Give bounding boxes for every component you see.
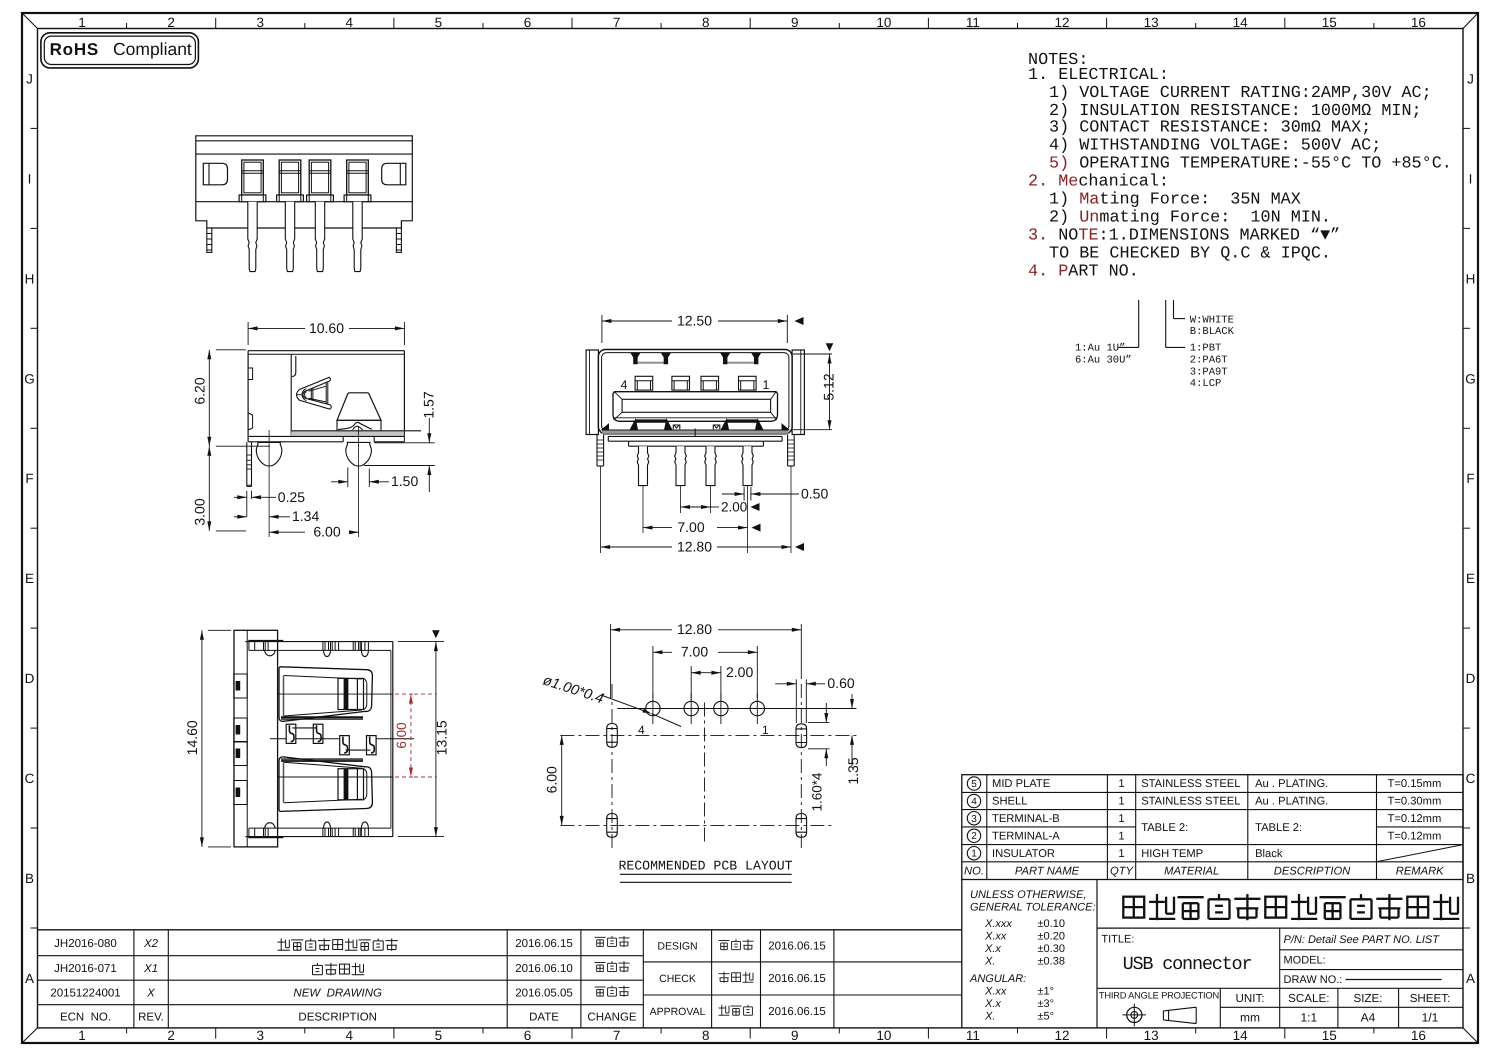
side view peg right <box>346 442 372 466</box>
bottom view top spring bottom bar <box>281 716 363 718</box>
side view top hook <box>292 356 296 377</box>
svg-text:5) OPERATING TEMPERATURE:-55°C: 5) OPERATING TEMPERATURE:-55°C TO +85°C. <box>1049 155 1452 174</box>
svg-text:4:LCP: 4:LCP <box>1190 378 1222 390</box>
svg-text:10: 10 <box>876 1028 891 1043</box>
svg-text:JH2016-071: JH2016-071 <box>54 963 117 975</box>
svg-text:13: 13 <box>1144 1028 1159 1043</box>
RoHS badge outer box <box>41 33 199 68</box>
svg-text:ECN NO.: ECN NO. <box>60 1011 111 1023</box>
front view dim 0.50 <box>743 487 745 501</box>
svg-text:1. ELECTRICAL:: 1. ELECTRICAL: <box>1028 66 1169 85</box>
svg-text:A4: A4 <box>1361 1011 1376 1025</box>
side view dim 1.34 <box>234 516 247 518</box>
svg-text:15: 15 <box>1322 15 1337 30</box>
revision table grid <box>37 929 962 931</box>
svg-text:5: 5 <box>435 15 443 30</box>
front view dim 12.80 <box>601 546 672 548</box>
svg-text:15: 15 <box>1322 1028 1337 1043</box>
svg-text:2016.06.10: 2016.06.10 <box>515 963 573 975</box>
svg-text:6: 6 <box>524 1028 532 1043</box>
svg-text:16: 16 <box>1411 1028 1426 1043</box>
svg-text:SHEET:: SHEET: <box>1410 992 1451 1005</box>
svg-text:B:BLACK: B:BLACK <box>1190 326 1235 338</box>
front view pin centerlines <box>642 486 644 533</box>
approval block grid <box>643 961 962 963</box>
svg-text:USB connector: USB connector <box>1123 954 1252 975</box>
svg-text:±0.10: ±0.10 <box>1038 918 1065 930</box>
side view dim 1.57 <box>374 442 435 444</box>
svg-text:A: A <box>1466 971 1475 986</box>
front view top latch B <box>723 362 758 364</box>
svg-text:6:Au 30U”: 6:Au 30U” <box>1075 355 1132 367</box>
svg-text:7: 7 <box>613 15 621 30</box>
svg-text:INSULATOR: INSULATOR <box>992 848 1055 860</box>
svg-text:1) Mating Force: 35N MAX: 1) Mating Force: 35N MAX <box>1049 191 1301 210</box>
svg-text:±0.20: ±0.20 <box>1038 930 1065 942</box>
svg-text:13: 13 <box>1144 15 1159 30</box>
front view tongue <box>613 392 778 422</box>
svg-text:12.80: 12.80 <box>677 621 712 637</box>
svg-text:7.00: 7.00 <box>677 519 704 535</box>
terminal box <box>347 160 369 195</box>
svg-text:TERMINAL-A: TERMINAL-A <box>992 831 1060 843</box>
svg-text:Compliant: Compliant <box>113 39 192 59</box>
svg-text:JH2016-080: JH2016-080 <box>54 938 117 950</box>
svg-text:1.35: 1.35 <box>845 757 861 784</box>
svg-text:HIGH TEMP: HIGH TEMP <box>1141 848 1203 860</box>
bottom view dim 13.15 <box>398 641 444 643</box>
rear view left hole <box>203 163 227 185</box>
svg-text:0.60: 0.60 <box>827 675 854 691</box>
svg-text:11: 11 <box>966 1028 980 1043</box>
company name chinese <box>1123 897 1144 918</box>
projection cone symbol <box>1163 1007 1196 1023</box>
bottom view dim 6.00 red <box>395 693 413 695</box>
svg-text:2016.06.15: 2016.06.15 <box>515 938 573 950</box>
svg-text:1: 1 <box>78 1028 86 1043</box>
svg-text:14: 14 <box>1233 1028 1249 1043</box>
svg-text:±1°: ±1° <box>1038 986 1055 998</box>
svg-text:E: E <box>25 571 34 586</box>
svg-text:A: A <box>25 971 34 986</box>
pcb dim 1.35 <box>764 708 857 710</box>
svg-text:J: J <box>26 72 33 87</box>
svg-text:3:PA9T: 3:PA9T <box>1190 367 1228 379</box>
svg-text:4: 4 <box>638 723 645 737</box>
svg-text:1) VOLTAGE CURRENT RATING:2AMP: 1) VOLTAGE CURRENT RATING:2AMP,30V AC; <box>1049 84 1432 103</box>
side view latch wave <box>338 422 372 429</box>
svg-text:1.50: 1.50 <box>391 473 418 489</box>
BOM table grid <box>962 775 1463 880</box>
side view dim 3.00 <box>208 446 210 531</box>
side view left edge notches <box>248 368 253 380</box>
svg-text:SIZE:: SIZE: <box>1354 992 1383 1005</box>
svg-text:NO.: NO. <box>964 865 984 877</box>
svg-text:I: I <box>1469 171 1473 186</box>
svg-text:7: 7 <box>613 1028 621 1043</box>
svg-text:12: 12 <box>1054 1028 1069 1043</box>
svg-text:2. Mechanical:: 2. Mechanical: <box>1028 173 1169 192</box>
svg-text:1.34: 1.34 <box>292 508 319 524</box>
svg-text:3: 3 <box>971 814 977 825</box>
side view dim 0.25 <box>246 491 248 517</box>
svg-text:20151224001: 20151224001 <box>50 988 120 1000</box>
pcb dim 6.00 left <box>561 735 563 825</box>
svg-text:I: I <box>28 171 32 186</box>
side view dim 10.60 <box>247 322 249 345</box>
front view shell inner <box>602 353 789 431</box>
terminal pin <box>353 202 362 272</box>
svg-text:1: 1 <box>1118 848 1124 860</box>
svg-text:2016.06.15: 2016.06.15 <box>768 1006 826 1018</box>
svg-text:2.00: 2.00 <box>726 664 753 680</box>
side view latch trapezoid <box>337 393 381 421</box>
svg-text:APPROVAL: APPROVAL <box>650 1006 706 1018</box>
svg-text:2: 2 <box>971 831 977 842</box>
svg-text:STAINLESS STEEL: STAINLESS STEEL <box>1141 796 1240 808</box>
svg-text:H: H <box>1466 271 1476 286</box>
svg-text:1: 1 <box>1118 778 1124 790</box>
side view peg left <box>256 442 282 466</box>
svg-text:Au . PLATING.: Au . PLATING. <box>1255 778 1328 790</box>
svg-text:2) Unmating Force: 10N MIN.: 2) Unmating Force: 10N MIN. <box>1049 209 1331 228</box>
svg-text:mm: mm <box>1240 1011 1260 1025</box>
bottom view bottom spring crimp <box>338 769 364 800</box>
svg-text:5: 5 <box>971 779 977 790</box>
bottom view dim 14.60 <box>208 629 231 631</box>
svg-text:2016.05.05: 2016.05.05 <box>515 988 573 1000</box>
front view shell outer <box>598 350 792 434</box>
svg-text:4: 4 <box>621 378 628 392</box>
front view left flange <box>586 350 598 435</box>
svg-text:X1: X1 <box>143 963 158 975</box>
pcb slots <box>607 729 618 743</box>
svg-text:DESIGN: DESIGN <box>657 941 697 953</box>
svg-text:Au . PLATING.: Au . PLATING. <box>1255 796 1328 808</box>
svg-text:X: X <box>146 988 156 1000</box>
svg-text:1: 1 <box>1118 813 1124 825</box>
svg-text:3: 3 <box>256 1028 264 1043</box>
front view dim 12.50 <box>601 315 603 343</box>
svg-text:ANGULAR:: ANGULAR: <box>969 973 1026 985</box>
svg-text:3: 3 <box>256 15 264 30</box>
svg-text:6.00: 6.00 <box>313 524 340 540</box>
terminal flange <box>277 195 304 202</box>
svg-text:D: D <box>25 671 35 686</box>
bottom view contact clips <box>286 724 296 743</box>
front view pins <box>637 446 649 485</box>
svg-text:E: E <box>1466 571 1475 586</box>
bottom view left block <box>234 630 278 847</box>
side view dim 6.00 <box>269 531 305 533</box>
svg-text:T=0.12mm: T=0.12mm <box>1388 831 1442 843</box>
bottom view bottom spring <box>279 757 372 812</box>
svg-text:0.50: 0.50 <box>801 485 828 501</box>
svg-text:G: G <box>24 371 35 386</box>
side view dim 1.50 <box>347 467 349 487</box>
svg-text:14: 14 <box>1233 15 1249 30</box>
svg-text:TERMINAL-B: TERMINAL-B <box>992 813 1060 825</box>
svg-text:6: 6 <box>524 15 532 30</box>
svg-text:2016.06.15: 2016.06.15 <box>768 941 826 953</box>
svg-text:MID PLATE: MID PLATE <box>992 778 1050 790</box>
svg-text:THIRD ANGLE PROJECTION: THIRD ANGLE PROJECTION <box>1099 990 1219 1000</box>
rear view right hole <box>382 163 406 185</box>
svg-text:1.57: 1.57 <box>421 391 437 418</box>
svg-text:14.60: 14.60 <box>184 720 200 755</box>
svg-text:D: D <box>1466 671 1476 686</box>
bottom view left block slots <box>234 674 247 698</box>
svg-text:B: B <box>1466 871 1475 886</box>
pcb dim 0.60 <box>795 679 797 723</box>
svg-text:4. PART NO.: 4. PART NO. <box>1028 263 1139 282</box>
front view bottom latch A <box>636 419 667 421</box>
svg-text:RECOMMENDED PCB LAYOUT: RECOMMENDED PCB LAYOUT <box>618 859 792 874</box>
svg-text:X.xx: X.xx <box>984 986 1007 998</box>
svg-text:1:1: 1:1 <box>1300 1011 1317 1025</box>
svg-text:1/1: 1/1 <box>1422 1011 1439 1025</box>
svg-text:3.00: 3.00 <box>192 498 208 525</box>
svg-text:TABLE 2:: TABLE 2: <box>1141 822 1188 834</box>
BOM remark diagonal <box>1377 845 1464 862</box>
svg-text:MATERIAL: MATERIAL <box>1164 865 1219 877</box>
svg-text:3. NOTE:1.DIMENSIONS MARKED “▼: 3. NOTE:1.DIMENSIONS MARKED “▼” <box>1028 227 1340 246</box>
svg-text:X.x: X.x <box>984 998 1001 1010</box>
svg-text:11: 11 <box>966 15 980 30</box>
svg-text:±0.38: ±0.38 <box>1038 955 1065 967</box>
title block grid <box>961 880 963 1028</box>
BOM circled item numbers <box>967 777 980 790</box>
side view wire clip spring <box>297 377 332 409</box>
svg-text:6.20: 6.20 <box>192 377 208 404</box>
terminal box <box>242 160 264 195</box>
svg-text:TO BE CHECKED BY Q.C & IPQC.: TO BE CHECKED BY Q.C & IPQC. <box>1049 245 1331 264</box>
svg-text:QTY: QTY <box>1110 865 1135 877</box>
part number tree lines <box>1118 346 1139 348</box>
svg-text:UNLESS OTHERWISE,: UNLESS OTHERWISE, <box>970 889 1087 901</box>
terminal box <box>279 160 301 195</box>
svg-text:3) CONTACT RESISTANCE: 30mΩ MA: 3) CONTACT RESISTANCE: 30mΩ MAX; <box>1049 119 1371 138</box>
svg-text:REV.: REV. <box>138 1011 164 1023</box>
pcb construction lines <box>560 734 856 736</box>
svg-text:P/N: Detail See PART NO. LIST: P/N: Detail See PART NO. LIST <box>1284 934 1441 946</box>
front view dim 5.12 <box>793 353 832 355</box>
svg-text:GENERAL TOLERANCE:: GENERAL TOLERANCE: <box>970 902 1096 914</box>
svg-text:7.00: 7.00 <box>681 644 708 660</box>
svg-text:±3°: ±3° <box>1038 998 1055 1010</box>
svg-text:X.xx: X.xx <box>984 930 1007 942</box>
side view peg centerlines <box>268 430 270 537</box>
pcb dim 1.60x4 <box>808 722 830 724</box>
pcb dim 7.00 <box>652 646 654 698</box>
bottom view inner horizontal lines <box>278 693 393 695</box>
svg-text:W:WHITE: W:WHITE <box>1190 315 1234 327</box>
rear view top band lines <box>196 140 412 142</box>
svg-text:SCALE:: SCALE: <box>1288 992 1329 1005</box>
svg-text:±5°: ±5° <box>1038 1011 1055 1023</box>
front view insulator steps <box>608 435 782 437</box>
bottom view top shell band <box>245 641 392 643</box>
front view contact boxes <box>635 376 653 390</box>
svg-text:2016.06.15: 2016.06.15 <box>768 973 826 985</box>
svg-text:J: J <box>1467 72 1474 87</box>
RoHS badge inner box <box>44 36 195 64</box>
svg-text:TABLE 2:: TABLE 2: <box>1255 822 1302 834</box>
svg-text:12: 12 <box>1054 15 1069 30</box>
pcb dim 2.00 <box>690 666 692 700</box>
corner diagonals <box>22 13 38 29</box>
bottom view bottom shell band <box>245 836 392 838</box>
terminal flange <box>239 195 266 202</box>
svg-text:MODEL:: MODEL: <box>1284 955 1326 967</box>
svg-text:6.00: 6.00 <box>544 766 560 793</box>
front view dim 2.00 <box>681 506 711 508</box>
terminal pin <box>285 202 294 272</box>
bottom view bottom spring top bar <box>281 760 363 762</box>
svg-text:X.x: X.x <box>984 943 1001 955</box>
svg-text:CHECK: CHECK <box>659 973 696 985</box>
bottom view main body <box>392 642 394 837</box>
bottom view top spring crimp <box>338 678 364 709</box>
terminal pin <box>248 202 257 272</box>
front view bottom latch B <box>727 419 758 421</box>
front view top latch A <box>634 362 668 364</box>
svg-text:ø1.00*0.4: ø1.00*0.4 <box>541 673 606 708</box>
svg-text:DATE: DATE <box>529 1011 559 1023</box>
svg-text:5: 5 <box>435 1028 443 1043</box>
svg-text:B: B <box>25 871 34 886</box>
svg-text:12.50: 12.50 <box>677 312 712 328</box>
pcb holes <box>646 701 660 715</box>
svg-text:1: 1 <box>762 723 769 737</box>
front view side legs <box>596 435 598 467</box>
terminal flange <box>307 195 334 202</box>
rear view side legs <box>207 228 212 252</box>
svg-text:2.00: 2.00 <box>721 499 747 514</box>
svg-text:UNIT:: UNIT: <box>1236 992 1265 1005</box>
svg-text:1: 1 <box>78 15 86 30</box>
svg-text:REMARK: REMARK <box>1396 865 1444 877</box>
svg-text:13.15: 13.15 <box>434 720 450 755</box>
svg-text:C: C <box>25 771 35 786</box>
svg-text:H: H <box>25 271 35 286</box>
svg-text:5.12: 5.12 <box>821 373 837 400</box>
svg-text:F: F <box>1466 471 1474 486</box>
svg-text:10.60: 10.60 <box>309 320 344 336</box>
svg-text:12.80: 12.80 <box>677 538 712 554</box>
svg-text:2:PA6T: 2:PA6T <box>1190 355 1228 367</box>
svg-text:8: 8 <box>702 15 710 30</box>
svg-text:CHANGE: CHANGE <box>587 1011 637 1023</box>
svg-text:1: 1 <box>763 378 770 392</box>
svg-text:4: 4 <box>971 797 977 808</box>
svg-text:16: 16 <box>1411 15 1426 30</box>
side view left thin leg <box>246 442 248 486</box>
terminal box <box>309 160 331 195</box>
svg-text:6.00: 6.00 <box>394 722 409 748</box>
side view dim 6.20 <box>216 349 246 351</box>
svg-text:1.60*4: 1.60*4 <box>810 772 825 812</box>
svg-text:4: 4 <box>346 1028 354 1043</box>
svg-text:T=0.30mm: T=0.30mm <box>1388 796 1442 808</box>
pcb dim 12.80 <box>610 624 612 698</box>
svg-text:F: F <box>25 471 33 486</box>
rear view mid line <box>196 201 412 203</box>
svg-text:1: 1 <box>971 849 977 860</box>
svg-text:X2: X2 <box>143 938 159 950</box>
svg-text:1:PBT: 1:PBT <box>1190 343 1222 355</box>
side view body <box>248 350 404 352</box>
svg-text:T=0.12mm: T=0.12mm <box>1388 813 1442 825</box>
svg-text:DESCRIPTION: DESCRIPTION <box>298 1011 377 1023</box>
svg-text:Black: Black <box>1255 848 1283 860</box>
svg-text:NEW DRAWING: NEW DRAWING <box>293 988 382 1000</box>
svg-text:X.xxx: X.xxx <box>984 918 1012 930</box>
bottom view center line <box>270 738 286 740</box>
rear view body outline <box>196 136 412 228</box>
revision chinese texts <box>280 938 282 950</box>
svg-text:8: 8 <box>702 1028 710 1043</box>
svg-text:G: G <box>1465 371 1476 386</box>
svg-text:±0.30: ±0.30 <box>1038 943 1065 955</box>
svg-text:PART NAME: PART NAME <box>1015 865 1080 877</box>
ruler tick marks <box>126 23 128 29</box>
svg-text:TITLE:: TITLE: <box>1101 934 1134 946</box>
front view dim 7.00 <box>643 527 672 529</box>
svg-text:1: 1 <box>1118 796 1124 808</box>
front view right flange <box>792 350 804 435</box>
svg-text:2: 2 <box>167 15 175 30</box>
svg-text:9: 9 <box>791 1028 799 1043</box>
bottom view clip link lines <box>292 727 316 729</box>
svg-text:T=0.15mm: T=0.15mm <box>1388 778 1442 790</box>
svg-text:9: 9 <box>791 15 799 30</box>
svg-text:X.: X. <box>984 955 995 967</box>
svg-text:SHELL: SHELL <box>992 796 1027 808</box>
svg-text:4) WITHSTANDING VOLTAGE: 500V: 4) WITHSTANDING VOLTAGE: 500V AC; <box>1049 137 1381 156</box>
svg-text:1:Au 1U”: 1:Au 1U” <box>1075 343 1125 355</box>
svg-text:10: 10 <box>876 15 891 30</box>
svg-text:C: C <box>1466 771 1476 786</box>
svg-text:STAINLESS STEEL: STAINLESS STEEL <box>1141 778 1240 790</box>
bottom view top spring <box>279 667 372 722</box>
terminal flange <box>344 195 371 202</box>
terminal pin <box>315 202 324 272</box>
svg-text:1: 1 <box>1118 831 1124 843</box>
svg-text:X.: X. <box>984 1011 995 1023</box>
svg-text:DESCRIPTION: DESCRIPTION <box>1274 865 1351 877</box>
svg-text:DRAW NO.:: DRAW NO.: <box>1284 974 1343 986</box>
front view shell bottom band <box>602 430 789 434</box>
svg-text:2: 2 <box>167 1028 175 1043</box>
svg-text:0.25: 0.25 <box>278 489 305 505</box>
approver chinese names <box>719 940 730 942</box>
svg-text:RoHS: RoHS <box>50 40 99 59</box>
svg-text:4: 4 <box>346 15 354 30</box>
